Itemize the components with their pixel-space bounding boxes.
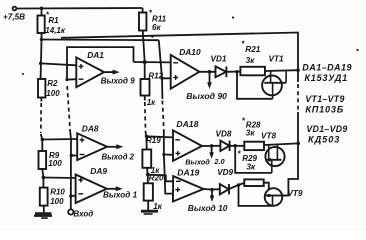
arrow output 10 — [211, 190, 213, 198]
svg-text:К153УД1: К153УД1 — [304, 73, 348, 83]
svg-text:14,1к: 14,1к — [45, 26, 66, 35]
wire input line to lower block — [161, 78, 163, 99]
svg-text:VT9: VT9 — [287, 189, 302, 198]
transistor VT1 — [262, 71, 286, 99]
ink speck near R11 crossing — [151, 35, 154, 38]
svg-text:100: 100 — [50, 197, 64, 206]
resistor R2 — [38, 79, 45, 98]
wire VT1 source loop — [237, 72, 273, 99]
wire divider dashed break — [40, 103, 42, 133]
svg-text:VT8: VT8 — [261, 132, 276, 141]
wire DA9 output arrow — [107, 188, 119, 190]
node top of R1 — [40, 7, 44, 11]
wire R21 to rail over VT1 — [265, 69, 298, 72]
wire VT8 source loop — [235, 146, 272, 173]
wire right rail lower — [282, 112, 299, 196]
wire DA8 plus input — [42, 138, 77, 141]
diode VD9 — [220, 184, 229, 194]
node R1 bottom — [40, 38, 44, 42]
resistor R11 — [142, 8, 144, 13]
svg-text:Выход 1: Выход 1 — [103, 191, 138, 200]
wire input line dashed break upper — [67, 86, 70, 133]
svg-text:DA9: DA9 — [90, 166, 107, 176]
terminal +7,5V — [13, 7, 17, 11]
svg-text:DA1–DA19: DA1–DA19 — [302, 63, 352, 73]
wire divider to DA1 plus tap — [40, 40, 43, 80]
wire tap to DA19 minus — [148, 175, 173, 182]
svg-text:КП103Б: КП103Б — [305, 104, 344, 114]
wire DA8 output arrow — [107, 146, 119, 148]
wire DA1 minus to input line — [67, 78, 76, 80]
wire ladder lower solid to R19 — [146, 133, 147, 150]
svg-text:Выход 9: Выход 9 — [101, 76, 136, 85]
ink speck right — [356, 49, 358, 51]
svg-text:R20: R20 — [149, 173, 164, 182]
wire R9 to R10 — [42, 169, 43, 188]
ink speck left — [22, 73, 24, 75]
wire feedback box around DA1 — [67, 47, 134, 80]
wire DA18 minus input — [146, 136, 173, 137]
transistor VT8 — [265, 144, 284, 173]
wire VT9 drain to rail — [281, 195, 288, 197]
ground under R20 — [141, 211, 158, 214]
node VT9 source loop — [237, 183, 241, 187]
node DA9 minus tap — [69, 194, 73, 198]
svg-text:R10: R10 — [50, 187, 65, 196]
wire DA18 plus input — [164, 154, 173, 156]
node DA8 minus tap — [70, 154, 74, 158]
svg-text:VD1–VD9: VD1–VD9 — [306, 124, 347, 134]
svg-text:DA19: DA19 — [177, 167, 199, 177]
wire R28 to rail over VT8 — [264, 143, 299, 145]
svg-text:100: 100 — [46, 89, 60, 98]
wire R29 to VT9 gate — [264, 183, 269, 196]
wire R10 to ground — [43, 206, 45, 213]
op-amp DA19 — [173, 176, 204, 201]
node output 10 branch — [210, 188, 214, 192]
wire VD1 to R21 — [226, 71, 240, 73]
resistor R19 — [142, 150, 151, 168]
wire DA9 plus input — [43, 177, 75, 180]
node VT8 source loop — [233, 144, 237, 148]
terminal Vhod — [68, 209, 73, 214]
transistor VT9 — [265, 188, 283, 206]
wire right rail dashed break — [297, 84, 299, 112]
wire R11 bottom to ladder node — [143, 31, 145, 81]
resistor R28 — [244, 142, 264, 150]
svg-text:R1: R1 — [48, 16, 59, 25]
wire ladder dashed break — [144, 102, 147, 133]
resistor R1 — [38, 16, 45, 34]
svg-text:DA10: DA10 — [179, 47, 201, 57]
wire VD8 to R28 — [230, 145, 245, 147]
node DA1 minus — [65, 78, 68, 81]
wire DA19 output — [204, 188, 220, 191]
svg-text:3к: 3к — [246, 128, 256, 137]
node DA18 plus tap — [162, 153, 165, 156]
wire DA1 output arrow — [104, 71, 116, 73]
resistor R21 — [240, 67, 265, 76]
svg-text:6к: 6к — [152, 23, 161, 32]
wire R19 bottom — [146, 168, 149, 184]
wire DA18 output — [202, 145, 220, 147]
arrow output 20 — [211, 146, 213, 155]
wire DA10 output — [199, 71, 215, 73]
resistor R9 — [39, 151, 47, 169]
svg-text:+7,5В: +7,5В — [3, 13, 25, 22]
svg-text:VT1: VT1 — [269, 55, 284, 64]
svg-text:R2: R2 — [47, 79, 58, 88]
svg-text:R21: R21 — [245, 45, 260, 54]
resistor R10 — [40, 188, 48, 206]
wire input line lower right solid — [164, 130, 173, 194]
wire DA8 minus input — [71, 155, 77, 157]
node R19 R20 junction — [146, 173, 150, 177]
svg-text:R19: R19 — [146, 136, 161, 145]
wire input line dashed break right — [162, 101, 163, 131]
resistor R29 — [244, 179, 263, 186]
node DA10 plus tap — [160, 77, 163, 80]
svg-text:DA18: DA18 — [176, 119, 198, 129]
wire top rail — [17, 7, 143, 10]
wire VT9 source loop — [239, 185, 273, 206]
wire R1 top stem — [41, 8, 43, 15]
resistor R12 — [141, 79, 150, 96]
wire input line lower solid — [69, 133, 72, 209]
svg-text:Выход 2: Выход 2 — [102, 153, 135, 162]
wire R20 to ground — [147, 201, 149, 211]
diode VD8 — [220, 141, 229, 151]
svg-text:VT1–VT9: VT1–VT9 — [305, 94, 344, 104]
op-amp DA8 — [77, 133, 107, 160]
svg-text:Вход: Вход — [73, 210, 93, 219]
node output 20 branch — [210, 144, 214, 148]
node drain rail VT8 — [296, 142, 300, 146]
op-amp DA1 — [76, 57, 104, 87]
svg-text:VD9: VD9 — [217, 168, 233, 177]
node DA18 minus tap — [145, 135, 148, 138]
svg-text:100: 100 — [48, 159, 62, 168]
arrow output 90 — [209, 72, 211, 85]
wire node line to DA10 minus — [134, 61, 171, 63]
svg-text:1к: 1к — [147, 98, 156, 107]
node R9 R10 junction — [42, 176, 46, 180]
node output 90 branch — [208, 70, 212, 74]
svg-text:VD1: VD1 — [211, 55, 227, 64]
diode VD1 — [216, 66, 227, 77]
svg-text:DA1: DA1 — [87, 50, 104, 60]
node VT1 source loop — [235, 70, 239, 74]
wire long rail to right side — [42, 39, 159, 42]
wire supply rail upper — [61, 33, 298, 83]
svg-text:3к: 3к — [246, 55, 256, 65]
wire DA1 plus input — [41, 63, 77, 65]
wire below R2 — [40, 98, 42, 102]
svg-text:КД503: КД503 — [308, 135, 340, 145]
node DA8 plus tap — [41, 138, 45, 142]
svg-text:VD8: VD8 — [216, 129, 232, 138]
svg-text:Выход 10: Выход 10 — [188, 203, 228, 213]
node DA1 plus tap — [39, 62, 43, 66]
op-amp DA10 — [171, 55, 200, 89]
wire R1 bottom stem — [41, 33, 43, 40]
wire input line down to DA10 plus — [159, 40, 171, 78]
resistor R20 — [144, 183, 153, 200]
node drain rail VT1 — [296, 68, 300, 72]
op-amp DA18 — [173, 130, 202, 161]
svg-text:3к: 3к — [247, 163, 257, 172]
svg-text:2.0: 2.0 — [213, 157, 225, 166]
svg-text:Выход: Выход — [185, 158, 210, 167]
wire R12 bottom — [144, 95, 146, 101]
ground — [34, 214, 52, 219]
wire divider lower solid — [41, 134, 43, 151]
svg-text:DA8: DA8 — [82, 123, 99, 133]
svg-text:R11: R11 — [152, 14, 167, 23]
wire VD9 to R29 — [229, 183, 244, 189]
node ladder tap R11 R12 — [143, 60, 147, 64]
op-amp DA9 — [76, 175, 107, 204]
svg-text:Выход 90: Выход 90 — [186, 91, 227, 101]
wire DA9 minus input — [71, 195, 76, 197]
ink speck top — [232, 16, 234, 18]
